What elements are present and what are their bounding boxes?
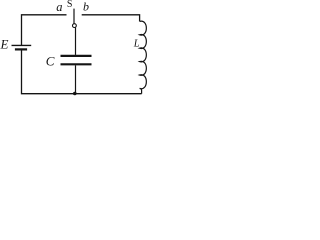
switch S lever [73,9,75,24]
wire: left wire below battery + bottom wire [22,50,142,94]
svg-text:E: E [0,37,9,52]
wire: capacitor bottom lead [75,65,77,93]
svg-text:b: b [83,0,89,14]
battery E: long plate [12,44,32,46]
svg-text:L: L [133,39,140,50]
capacitor C top plate [61,55,92,57]
wire: top-right segment, right corner, down to coil [82,15,140,22]
capacitor C bottom plate [61,63,92,65]
inductor L coil [140,21,147,94]
switch S pivot circle [73,24,77,28]
svg-text:C: C [46,53,55,68]
svg-text:S: S [67,0,73,10]
battery E: short thick plate [15,48,27,50]
wire: switch pivot down to capacitor [75,28,77,55]
junction dot [73,92,77,96]
svg-text:a: a [56,0,62,14]
wire: top-left segment and left wire down to battery [22,15,67,45]
